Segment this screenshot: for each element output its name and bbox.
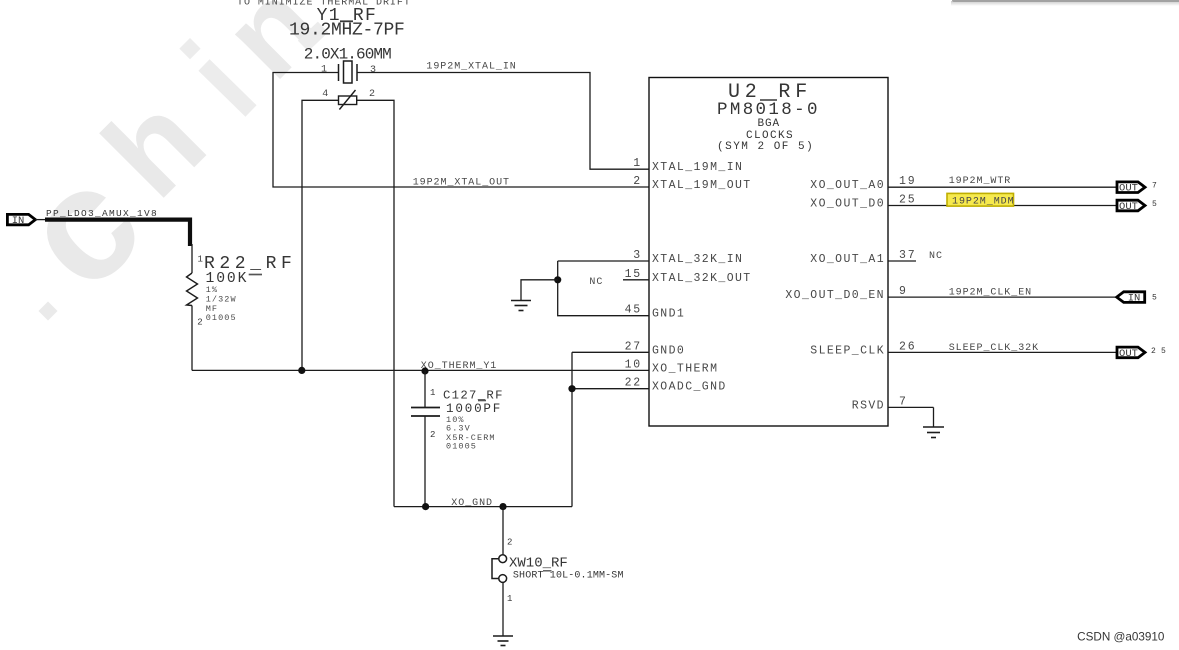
svg-text:19P2M_MDM: 19P2M_MDM bbox=[952, 196, 1015, 207]
wire XO_GND row bbox=[394, 506, 572, 508]
wire to XW10 bbox=[502, 507, 504, 555]
thick wire PP_LDO3_AMUX_1V8 bbox=[45, 220, 190, 246]
svg-text:XO_GND: XO_GND bbox=[451, 498, 493, 509]
svg-text:SHORT 10L-0.1MM-SM: SHORT 10L-0.1MM-SM bbox=[513, 571, 624, 582]
junction pin22 bbox=[568, 385, 575, 392]
svg-text:SLEEP_CLK_32K: SLEEP_CLK_32K bbox=[949, 343, 1039, 354]
svg-text:10: 10 bbox=[625, 358, 642, 371]
port OUT 19P2M_WTR bbox=[1117, 182, 1145, 195]
svg-text:GND0: GND0 bbox=[652, 344, 685, 357]
svg-text:OUT: OUT bbox=[1119, 183, 1138, 195]
svg-text:1: 1 bbox=[321, 65, 328, 76]
svg-text:RSVD: RSVD bbox=[852, 399, 885, 412]
svg-text:5: 5 bbox=[1161, 347, 1166, 356]
dash above PF bbox=[478, 400, 486, 402]
svg-text:CSDN @a03910: CSDN @a03910 bbox=[1077, 630, 1165, 643]
svg-text:01005: 01005 bbox=[446, 441, 477, 451]
svg-text:XO_THERM_Y1: XO_THERM_Y1 bbox=[421, 361, 497, 372]
pin 7 RSVD bbox=[888, 406, 934, 408]
pin 37 XO_OUT_A1 bbox=[888, 260, 916, 262]
svg-text:XO_OUT_A0: XO_OUT_A0 bbox=[810, 179, 885, 192]
svg-text:19P2M_XTAL_IN: 19P2M_XTAL_IN bbox=[426, 62, 516, 73]
svg-text:2: 2 bbox=[1151, 347, 1156, 356]
svg-text:CLOCKS: CLOCKS bbox=[746, 130, 794, 142]
pin 26 SLEEP_CLK bbox=[888, 351, 1116, 353]
svg-text:19: 19 bbox=[899, 175, 916, 188]
junction XW10 bbox=[499, 503, 506, 510]
svg-text:XTAL_32K_OUT: XTAL_32K_OUT bbox=[652, 272, 752, 285]
IC U2 box bbox=[649, 78, 888, 427]
svg-text:3: 3 bbox=[370, 65, 377, 76]
svg-text:7: 7 bbox=[899, 395, 908, 408]
junction 32K gnd bbox=[554, 276, 561, 283]
wire C127 top bbox=[424, 370, 426, 407]
dash after 100K bbox=[249, 274, 262, 276]
svg-text:XTAL_19M_OUT: XTAL_19M_OUT bbox=[652, 179, 752, 192]
svg-text:IN: IN bbox=[1128, 293, 1141, 305]
svg-text:2: 2 bbox=[633, 175, 642, 188]
junction R22/varistor bbox=[298, 367, 305, 374]
svg-text:3: 3 bbox=[633, 249, 642, 262]
watermark dot bbox=[38, 301, 57, 320]
svg-text:45: 45 bbox=[625, 304, 642, 317]
port IN 19P2M_CLK_EN bbox=[1117, 292, 1145, 305]
svg-text:OUT: OUT bbox=[1119, 348, 1138, 360]
svg-text:C127_RF: C127_RF bbox=[443, 389, 504, 403]
junction C127 bottom bbox=[422, 503, 429, 510]
svg-text:1: 1 bbox=[430, 388, 435, 398]
svg-text:XTAL_19M_IN: XTAL_19M_IN bbox=[652, 161, 743, 174]
watermark letter i dot bbox=[179, 38, 200, 59]
ground near 32K bbox=[511, 301, 531, 311]
svg-text:OUT: OUT bbox=[1119, 201, 1138, 213]
crystal case element (rect with diagonal) bbox=[339, 90, 357, 110]
highlight box 19P2M_MDM bbox=[947, 193, 1014, 206]
svg-text:IN: IN bbox=[12, 215, 25, 227]
pin 25 XO_OUT_D0 bbox=[888, 205, 1116, 207]
resistor R22 zigzag bbox=[187, 273, 198, 306]
wire crystal row right bbox=[357, 73, 649, 170]
svg-text:NC: NC bbox=[929, 251, 943, 262]
svg-text:SLEEP_CLK: SLEEP_CLK bbox=[810, 344, 885, 357]
svg-text:25: 25 bbox=[899, 194, 916, 207]
ground below XW10 bbox=[493, 636, 513, 646]
pin 22 XOADC_GND bbox=[572, 388, 649, 390]
svg-text:2: 2 bbox=[507, 538, 512, 548]
svg-text:19P2M_CLK_EN: 19P2M_CLK_EN bbox=[949, 288, 1032, 299]
artifact overline on MHZ bbox=[340, 20, 353, 22]
svg-text:19.2MHZ-7PF: 19.2MHZ-7PF bbox=[289, 20, 405, 40]
svg-text:27: 27 bbox=[625, 340, 642, 353]
wire crystal row left bbox=[273, 73, 649, 188]
svg-text:XO_OUT_A1: XO_OUT_A1 bbox=[810, 253, 885, 266]
port IN (left) bbox=[7, 214, 45, 227]
svg-text:XTAL_32K_IN: XTAL_32K_IN bbox=[652, 253, 743, 266]
watermark letter i stem bbox=[204, 65, 251, 111]
svg-text:BGA: BGA bbox=[758, 118, 781, 130]
pin 9 XO_OUT_D0_EN bbox=[888, 296, 1116, 298]
svg-text:7: 7 bbox=[1152, 182, 1157, 191]
svg-text:XO_THERM: XO_THERM bbox=[652, 362, 718, 375]
crystal Y1 symbol bbox=[339, 61, 358, 83]
svg-text:5: 5 bbox=[1152, 294, 1157, 303]
pin 27 GND0 bbox=[572, 351, 649, 353]
wire XW10 to ground bbox=[502, 582, 504, 636]
wire R22 top bbox=[191, 244, 193, 273]
port OUT 19P2M_MDM bbox=[1117, 200, 1145, 213]
svg-text:XO_OUT_D0_EN: XO_OUT_D0_EN bbox=[785, 289, 885, 302]
pin 15 XTAL_32K_OUT bbox=[623, 279, 649, 281]
svg-text:2: 2 bbox=[430, 430, 435, 440]
port OUT SLEEP_CLK_32K bbox=[1117, 347, 1145, 360]
svg-text:XO_OUT_D0: XO_OUT_D0 bbox=[810, 198, 885, 211]
svg-text:4: 4 bbox=[322, 89, 329, 100]
svg-text:19P2M_XTAL_OUT: 19P2M_XTAL_OUT bbox=[413, 177, 510, 188]
svg-text:19P2M_WTR: 19P2M_WTR bbox=[949, 176, 1012, 187]
svg-text:26: 26 bbox=[899, 340, 916, 353]
watermark letter a fragment bbox=[303, 27, 323, 46]
pin 19 XO_OUT_A0 bbox=[888, 186, 1116, 188]
wire GND0/XOADC vertical bbox=[571, 352, 573, 506]
svg-text:9: 9 bbox=[899, 285, 908, 298]
svg-text:2: 2 bbox=[197, 317, 202, 327]
svg-text:1%: 1% bbox=[206, 285, 218, 295]
capacitor C127 plates bbox=[411, 407, 440, 409]
svg-text:1: 1 bbox=[507, 594, 512, 604]
svg-text:6.3V: 6.3V bbox=[446, 423, 471, 433]
wire R22 bottom bbox=[191, 306, 193, 371]
svg-text:GND1: GND1 bbox=[652, 308, 685, 321]
svg-text:22: 22 bbox=[625, 377, 642, 390]
wire RSVD to ground bbox=[933, 407, 935, 427]
svg-text:1: 1 bbox=[198, 255, 203, 265]
svg-text:1: 1 bbox=[633, 157, 642, 170]
svg-text:PM8018-0: PM8018-0 bbox=[717, 100, 820, 120]
wire varistor row right bbox=[357, 100, 394, 506]
ground RSVD bbox=[923, 427, 944, 438]
svg-text:01005: 01005 bbox=[206, 313, 237, 323]
svg-text:PP_LDO3_AMUX_1V8: PP_LDO3_AMUX_1V8 bbox=[46, 208, 158, 219]
svg-text:15: 15 bbox=[625, 268, 642, 281]
jumper XW10 circles bbox=[492, 555, 507, 583]
svg-text:XOADC_GND: XOADC_GND bbox=[652, 381, 727, 394]
pin 3 XTAL_32K_IN bbox=[558, 260, 649, 262]
wire to ground 32K bbox=[521, 280, 558, 301]
wire C127 bottom bbox=[424, 416, 426, 507]
svg-text:NC: NC bbox=[589, 277, 603, 288]
junction C127 top bbox=[421, 367, 428, 374]
dash above 10L bbox=[543, 570, 552, 572]
svg-text:1000PF: 1000PF bbox=[446, 402, 502, 416]
svg-text:2: 2 bbox=[369, 89, 376, 100]
svg-text:5: 5 bbox=[1152, 200, 1157, 209]
svg-text:XW10_RF: XW10_RF bbox=[509, 555, 568, 571]
wire XO_THERM row bbox=[192, 369, 649, 371]
svg-text:37: 37 bbox=[899, 249, 916, 262]
wire 32K ground loop bbox=[558, 261, 649, 316]
artifact overline on 18 bbox=[760, 99, 777, 101]
wire varistor row left bbox=[302, 100, 339, 370]
svg-text:(SYM 2 OF 5): (SYM 2 OF 5) bbox=[717, 141, 814, 153]
